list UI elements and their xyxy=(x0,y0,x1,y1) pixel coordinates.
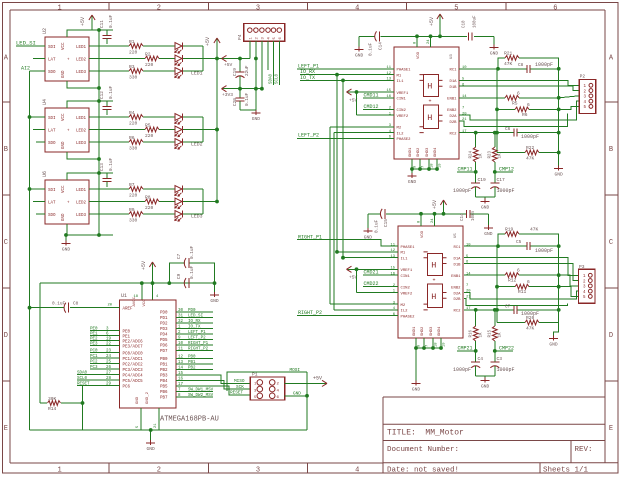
svg-text:PB1: PB1 xyxy=(188,361,196,365)
svg-text:SDI: SDI xyxy=(48,189,56,193)
svg-text:13: 13 xyxy=(390,255,395,259)
svg-text:R6: R6 xyxy=(522,112,528,118)
svg-text:GND_2: GND_2 xyxy=(146,391,150,404)
svg-text:LED3: LED3 xyxy=(76,71,87,75)
resistor R3 330 xyxy=(129,69,143,74)
svg-text:PHASE2: PHASE2 xyxy=(397,138,412,142)
svg-text:R16: R16 xyxy=(470,329,474,337)
svg-text:+3V3: +3V3 xyxy=(222,92,233,98)
svg-text:16: 16 xyxy=(178,377,184,381)
svg-text:R21: R21 xyxy=(504,51,513,57)
svg-text:GND: GND xyxy=(62,70,66,78)
pin PB5 U1 xyxy=(176,385,186,387)
wire MISO row xyxy=(186,375,250,384)
wire +5V rail drop left xyxy=(39,283,41,403)
svg-text:R23: R23 xyxy=(489,150,493,158)
resistor R16 1K xyxy=(475,310,477,326)
net label CMD11 wire xyxy=(363,97,394,99)
svg-text:Date: not saved!: Date: not saved! xyxy=(387,466,459,474)
wire U4 LED row 1 xyxy=(89,116,129,118)
svg-text:PD3: PD3 xyxy=(160,328,168,332)
svg-text:U5: U5 xyxy=(454,233,458,238)
svg-text:PD0: PD0 xyxy=(188,309,196,313)
svg-text:RIGHT_P2: RIGHT_P2 xyxy=(188,347,209,351)
frame row ticks right xyxy=(605,101,618,103)
svg-text:1000pF: 1000pF xyxy=(535,62,553,68)
svg-text:LAT: LAT xyxy=(48,129,56,133)
svg-text:7: 7 xyxy=(466,284,468,288)
svg-text:ENB2: ENB2 xyxy=(451,287,461,291)
svg-text:R3: R3 xyxy=(129,64,135,70)
svg-text:220: 220 xyxy=(145,205,154,211)
svg-text:D: D xyxy=(609,332,613,340)
svg-text:C6: C6 xyxy=(505,127,511,132)
wire RC1 row U5 xyxy=(464,245,527,247)
wire C14 gnd drop xyxy=(358,36,360,47)
ground driver2 cluster xyxy=(554,323,559,337)
svg-text:GND: GND xyxy=(62,247,71,253)
svg-text:LED1: LED1 xyxy=(76,117,87,121)
capacitor C11 0.1uF xyxy=(106,30,108,35)
svg-text:CMD12: CMD12 xyxy=(364,104,379,110)
junction vcc rail U4 xyxy=(97,99,101,103)
wire SDO pin U4 xyxy=(36,141,45,143)
svg-text:U2: U2 xyxy=(42,28,48,34)
wire U4 LED row 3 xyxy=(89,141,129,143)
svg-text:0.1uF: 0.1uF xyxy=(109,14,114,28)
svg-text:PC0/ADC0: PC0/ADC0 xyxy=(123,351,144,356)
svg-text:SCL0: SCL0 xyxy=(77,377,88,381)
wire cap branch upper xyxy=(169,263,185,283)
LED bracket U4 xyxy=(202,117,204,142)
net label CMP22 xyxy=(495,350,513,352)
svg-text:SDA0: SDA0 xyxy=(270,73,274,84)
resistor R11 sense xyxy=(495,285,499,289)
svg-text:LEFT_P1: LEFT_P1 xyxy=(188,331,206,335)
svg-text:M1: M1 xyxy=(397,74,402,78)
net label IO_RX wire xyxy=(300,74,394,76)
resistor R9 330 xyxy=(129,212,143,217)
wire P4 pin6 stub SCL0 xyxy=(278,41,280,85)
svg-text:RC1: RC1 xyxy=(453,246,461,250)
junction rail U6 xyxy=(215,200,219,204)
svg-text:+: + xyxy=(433,278,436,284)
wire U6 LED row 2 xyxy=(89,201,145,203)
svg-text:0.1uF: 0.1uF xyxy=(369,42,374,56)
pin PD6 U1 xyxy=(176,344,186,346)
resistor R19 47K xyxy=(498,234,505,246)
svg-text:5: 5 xyxy=(454,4,458,12)
svg-text:19: 19 xyxy=(439,163,443,168)
pin PB3 U1 xyxy=(176,374,186,376)
net label CMP11 xyxy=(457,171,476,173)
svg-text:24: 24 xyxy=(431,218,435,223)
svg-text:ENB1: ENB1 xyxy=(447,98,457,102)
svg-text:220: 220 xyxy=(129,49,138,55)
junction U5 vdd xyxy=(419,212,423,216)
resistor R1 220 xyxy=(129,44,143,49)
svg-text:CMP12: CMP12 xyxy=(499,167,514,173)
svg-text:IO_TX: IO_TX xyxy=(188,325,201,329)
bottom gnd pins U5 xyxy=(415,338,417,348)
svg-text:24: 24 xyxy=(106,355,112,359)
ground U5 xyxy=(412,383,421,385)
capacitor C20 0.1uF xyxy=(239,89,241,98)
svg-text:20: 20 xyxy=(462,112,467,116)
svg-text:15: 15 xyxy=(178,372,184,376)
wire SDO pin U6 xyxy=(36,213,45,215)
wire +5V row connector xyxy=(217,58,250,60)
svg-text:14: 14 xyxy=(178,366,184,370)
resistor R6 sense xyxy=(495,108,499,112)
wire SDI U2 xyxy=(16,45,45,47)
svg-text:17: 17 xyxy=(466,307,471,311)
pin PE1 U1 xyxy=(90,335,120,337)
connector P4 xyxy=(244,24,285,42)
svg-text:RIGHT_P1: RIGHT_P1 xyxy=(188,342,209,346)
svg-text:2: 2 xyxy=(157,4,161,12)
svg-text:16: 16 xyxy=(390,272,395,276)
svg-text:SDA0: SDA0 xyxy=(77,372,88,376)
svg-text:LED1: LED1 xyxy=(191,71,203,77)
pin PB7 U1 xyxy=(176,396,186,398)
svg-text:RC2: RC2 xyxy=(449,132,457,136)
svg-text:SDO: SDO xyxy=(48,214,56,218)
svg-text:GND4: GND4 xyxy=(438,326,442,336)
wire P4 pin3 to +3V3 row xyxy=(261,41,263,88)
svg-text:20: 20 xyxy=(107,304,112,308)
svg-text:LAT: LAT xyxy=(48,58,56,62)
wire U4 LED row 2 xyxy=(89,129,145,131)
wire +3V3 row xyxy=(222,88,262,90)
svg-text:PE3: PE3 xyxy=(90,343,98,347)
capacitor C14 0.1uF xyxy=(375,31,377,41)
wire U1 gnd pin stubs xyxy=(140,408,142,430)
svg-text:330: 330 xyxy=(129,217,138,223)
wire D1B to P3 pin2 xyxy=(464,264,579,281)
svg-text:SCL0: SCL0 xyxy=(275,73,279,84)
svg-text:27: 27 xyxy=(106,372,112,376)
junction SDO rail AREF xyxy=(28,306,32,310)
+5V arrow at connector xyxy=(222,58,229,60)
resistor R24 1K xyxy=(475,133,477,147)
svg-text:SDI: SDI xyxy=(48,46,56,50)
svg-text:VDD: VDD xyxy=(417,51,421,59)
svg-text:PD7: PD7 xyxy=(160,350,168,354)
svg-text:0.1uF: 0.1uF xyxy=(109,85,114,99)
svg-text:220: 220 xyxy=(145,133,154,139)
wire D2B to P2 xyxy=(459,114,568,127)
resistor R5 sense xyxy=(459,97,505,99)
motor driver IC U3 xyxy=(394,47,459,159)
svg-text:SW_DW2_MSV: SW_DW2_MSV xyxy=(188,394,214,398)
svg-text:RC2: RC2 xyxy=(453,310,461,314)
svg-text:C7: C7 xyxy=(177,253,182,259)
svg-text:IL1: IL1 xyxy=(397,80,405,84)
wire GND stub U4 xyxy=(67,152,99,159)
svg-text:3: 3 xyxy=(256,467,260,475)
svg-text:PB5: PB5 xyxy=(160,386,168,390)
svg-text:IL2: IL2 xyxy=(397,132,405,136)
svg-text:B: B xyxy=(4,146,8,154)
svg-text:P2: P2 xyxy=(580,74,586,80)
wire bus to U5 IL1 xyxy=(343,257,398,259)
wire U2 LED row 3 xyxy=(89,70,129,72)
svg-text:R12: R12 xyxy=(508,278,517,284)
net label CMD22 wire xyxy=(363,286,398,288)
junction C19 top xyxy=(238,57,242,61)
svg-text:PHASE2: PHASE2 xyxy=(401,316,416,320)
svg-text:12: 12 xyxy=(178,355,184,359)
svg-text:PD6: PD6 xyxy=(160,345,168,349)
svg-text:1K: 1K xyxy=(499,153,503,159)
svg-text:100uF: 100uF xyxy=(473,15,477,28)
svg-text:+5V: +5V xyxy=(224,62,233,68)
svg-text:GND1: GND1 xyxy=(409,147,413,157)
capacitor C12 0.1uF xyxy=(106,101,108,106)
wire D2A to P3 xyxy=(464,291,579,299)
svg-text:Sheets 1/1: Sheets 1/1 xyxy=(543,466,589,474)
resistor R2 220 xyxy=(145,56,159,61)
svg-text:PC6: PC6 xyxy=(123,385,131,389)
svg-text:PB2: PB2 xyxy=(160,369,168,373)
pin PE2 U1 xyxy=(90,340,120,342)
svg-text:0.1uF: 0.1uF xyxy=(245,92,250,106)
ground connector xyxy=(251,112,260,114)
pin PD4 U1 xyxy=(176,333,186,335)
junction vcc rail U6 xyxy=(97,171,101,175)
wire SDI U6 xyxy=(30,188,46,190)
resistor R8 220 xyxy=(145,199,159,204)
svg-text:21: 21 xyxy=(154,423,158,428)
svg-text:PC1/ADC1: PC1/ADC1 xyxy=(123,357,144,362)
svg-text:GND: GND xyxy=(62,213,66,221)
svg-text:LEFT_P2: LEFT_P2 xyxy=(298,133,319,139)
svg-text:30K: 30K xyxy=(48,396,57,402)
svg-text:GND: GND xyxy=(481,384,490,390)
svg-text:R5: R5 xyxy=(512,100,518,106)
svg-text:C10: C10 xyxy=(463,20,467,28)
wire C15 gnd drop xyxy=(367,214,369,229)
svg-text:GND: GND xyxy=(555,172,564,178)
svg-text:PB1: PB1 xyxy=(160,364,168,368)
pin SCL0 U1 xyxy=(77,379,120,381)
junction rail U2 xyxy=(215,57,219,61)
svg-text:GND: GND xyxy=(293,392,301,397)
svg-text:PC2/ADC2: PC2/ADC2 xyxy=(123,362,144,367)
LED LED2 element 3 xyxy=(175,139,182,146)
svg-text:R22: R22 xyxy=(526,145,535,151)
svg-text:R24: R24 xyxy=(470,150,474,158)
svg-text:28: 28 xyxy=(106,377,112,381)
svg-text:15: 15 xyxy=(386,89,391,93)
wire VREF link U5 xyxy=(356,269,358,292)
svg-text:1000pF: 1000pF xyxy=(521,134,539,140)
svg-text:C12: C12 xyxy=(100,91,105,99)
svg-text:19: 19 xyxy=(106,338,112,342)
wire SDI U4 xyxy=(30,116,46,118)
svg-text:C19: C19 xyxy=(478,177,487,183)
pin PC0 U1 xyxy=(90,352,120,354)
svg-text:R20: R20 xyxy=(526,315,535,321)
resistor R14 30K xyxy=(40,402,47,404)
svg-text:47K: 47K xyxy=(526,156,535,162)
svg-text:10: 10 xyxy=(466,243,471,247)
wire P4 pin4 stub xyxy=(267,41,269,70)
svg-text:VREF1: VREF1 xyxy=(397,92,409,96)
svg-text:C13: C13 xyxy=(100,163,105,171)
svg-text:PB2: PB2 xyxy=(188,366,196,370)
wire GND stub U2 xyxy=(67,81,99,88)
svg-text:LEFT_P2: LEFT_P2 xyxy=(188,336,206,340)
LED bracket U6 xyxy=(202,189,204,214)
rail x558 driver2 xyxy=(558,246,560,322)
resistor R22 47K xyxy=(497,152,525,154)
+5V arrow LED rail xyxy=(216,38,218,47)
svg-text:6: 6 xyxy=(553,4,557,12)
svg-text:1: 1 xyxy=(57,467,61,475)
svg-text:220: 220 xyxy=(145,62,154,68)
svg-text:PC3/ADC3: PC3/ADC3 xyxy=(123,368,144,373)
LED +5V rail vertical xyxy=(216,47,218,202)
net label IO_TX wire xyxy=(300,79,394,81)
svg-text:PD4: PD4 xyxy=(160,334,168,338)
svg-text:D2B: D2B xyxy=(449,121,457,125)
svg-text:U1: U1 xyxy=(121,293,127,299)
ground below U1 xyxy=(146,442,155,444)
svg-text:VCC: VCC xyxy=(62,113,66,121)
svg-text:P3: P3 xyxy=(579,264,585,270)
svg-text:D1B: D1B xyxy=(449,86,457,90)
net label RIGHT_P1 wire xyxy=(297,240,398,246)
svg-text:7: 7 xyxy=(426,345,430,347)
wire C10 to gnd xyxy=(493,36,495,45)
wire D1B to P2 pin2 xyxy=(459,86,579,90)
svg-text:17: 17 xyxy=(178,383,184,387)
wire LAT pin U2 xyxy=(33,58,45,60)
svg-text:7: 7 xyxy=(422,166,426,168)
wire LAT pin U6 xyxy=(33,201,45,203)
svg-text:GND4: GND4 xyxy=(434,147,438,157)
svg-text:2: 2 xyxy=(157,467,161,475)
svg-text:VCC: VCC xyxy=(143,299,147,307)
svg-text:12: 12 xyxy=(386,72,391,76)
svg-text:AREF: AREF xyxy=(123,308,134,312)
capacitor C9 0.1uF xyxy=(169,282,185,284)
svg-text:CMD22: CMD22 xyxy=(364,281,379,287)
svg-text:+5V: +5V xyxy=(313,376,322,382)
svg-text:1000pF: 1000pF xyxy=(453,367,471,373)
LED LED1 element 2 xyxy=(175,55,182,62)
wire bus to U5 M1 xyxy=(337,251,398,253)
wire +5V arrow to rail xyxy=(92,29,99,31)
svg-text:LED1: LED1 xyxy=(76,189,87,193)
resistor R7 220 xyxy=(129,187,143,192)
svg-text:CMP11: CMP11 xyxy=(458,167,473,173)
svg-text:PC3: PC3 xyxy=(90,366,98,370)
LED driver IC U6 xyxy=(45,180,89,224)
svg-text:R7: R7 xyxy=(129,182,135,188)
capacitor C13 0.1uF xyxy=(106,173,108,178)
svg-text:R8: R8 xyxy=(145,194,151,200)
wire LAT pin U4 xyxy=(33,129,45,131)
svg-text:+5V: +5V xyxy=(429,17,435,26)
svg-text:RIGHT_P2: RIGHT_P2 xyxy=(298,310,322,316)
LED LED2 element 2 xyxy=(175,126,182,133)
svg-text:CIN2: CIN2 xyxy=(397,109,407,113)
connector P2 xyxy=(579,80,596,114)
svg-text:VDD: VDD xyxy=(421,230,425,238)
net rail SDO vertical long wire xyxy=(29,71,31,430)
pin PB1 U1 xyxy=(176,363,186,365)
svg-text:GND1: GND1 xyxy=(413,326,417,336)
svg-text:MOSI: MOSI xyxy=(290,368,301,373)
pin PE3 U1 xyxy=(90,345,120,347)
svg-text:C: C xyxy=(609,239,613,247)
svg-text:PC1: PC1 xyxy=(90,355,98,359)
svg-text:29: 29 xyxy=(106,383,112,387)
ground left of U3 rail xyxy=(355,49,364,51)
pin PD5 U1 xyxy=(176,338,186,340)
svg-text:M2: M2 xyxy=(397,127,402,131)
svg-text:GND: GND xyxy=(136,396,140,404)
svg-text:CMD21: CMD21 xyxy=(364,270,379,276)
svg-text:RIGHT_P1: RIGHT_P1 xyxy=(298,234,322,240)
svg-text:PE1: PE1 xyxy=(90,333,98,337)
svg-text:17: 17 xyxy=(462,130,467,134)
H bridge symbol 2 U3 xyxy=(424,105,439,128)
svg-text:PE3/ADC7: PE3/ADC7 xyxy=(123,344,144,349)
vcc rail left of caps xyxy=(98,30,100,235)
svg-text:C9: C9 xyxy=(177,273,182,279)
wire D2B to P3 xyxy=(464,298,568,305)
wire RC1 row xyxy=(459,68,527,70)
svg-text:GND: GND xyxy=(252,116,261,122)
capacitor C19b 1000pF xyxy=(475,172,477,183)
svg-text:330: 330 xyxy=(129,145,138,151)
pin PC2 U1 xyxy=(90,363,120,365)
LED LED3 element 2 xyxy=(175,198,182,205)
capacitor C6 1000pF xyxy=(513,129,515,137)
svg-text:1000pF: 1000pF xyxy=(497,188,515,194)
wire RC2 row U5 xyxy=(464,309,514,311)
svg-text:C8: C8 xyxy=(73,302,79,307)
top power pins U3 xyxy=(416,36,418,47)
+5V arrow top left xyxy=(91,15,93,30)
pin PD7 U1 xyxy=(176,349,186,351)
wire AVCC stub xyxy=(141,283,143,300)
svg-text:330: 330 xyxy=(129,74,138,80)
svg-text:U3: U3 xyxy=(450,54,454,59)
svg-text:0.1uF: 0.1uF xyxy=(190,245,195,259)
svg-text:6: 6 xyxy=(517,268,520,274)
junction C20 top xyxy=(238,87,242,91)
svg-text:AVCC: AVCC xyxy=(133,296,137,306)
svg-text:13: 13 xyxy=(386,78,391,82)
capacitor C4 1000pF xyxy=(475,351,477,362)
wire caps to gnd xyxy=(476,196,495,198)
svg-text:GND: GND xyxy=(481,205,490,211)
svg-text:R11: R11 xyxy=(518,289,527,295)
svg-text:SW_DW1_MSV: SW_DW1_MSV xyxy=(188,388,214,392)
svg-text:1K: 1K xyxy=(480,153,484,159)
svg-text:U4: U4 xyxy=(42,99,48,105)
pin PD1 U1 xyxy=(176,316,186,318)
wire D1A to P3 pin1 xyxy=(464,258,579,276)
svg-text:1000pF: 1000pF xyxy=(497,367,515,373)
pin PC3 U1 xyxy=(90,368,120,370)
svg-text:H: H xyxy=(427,113,432,123)
